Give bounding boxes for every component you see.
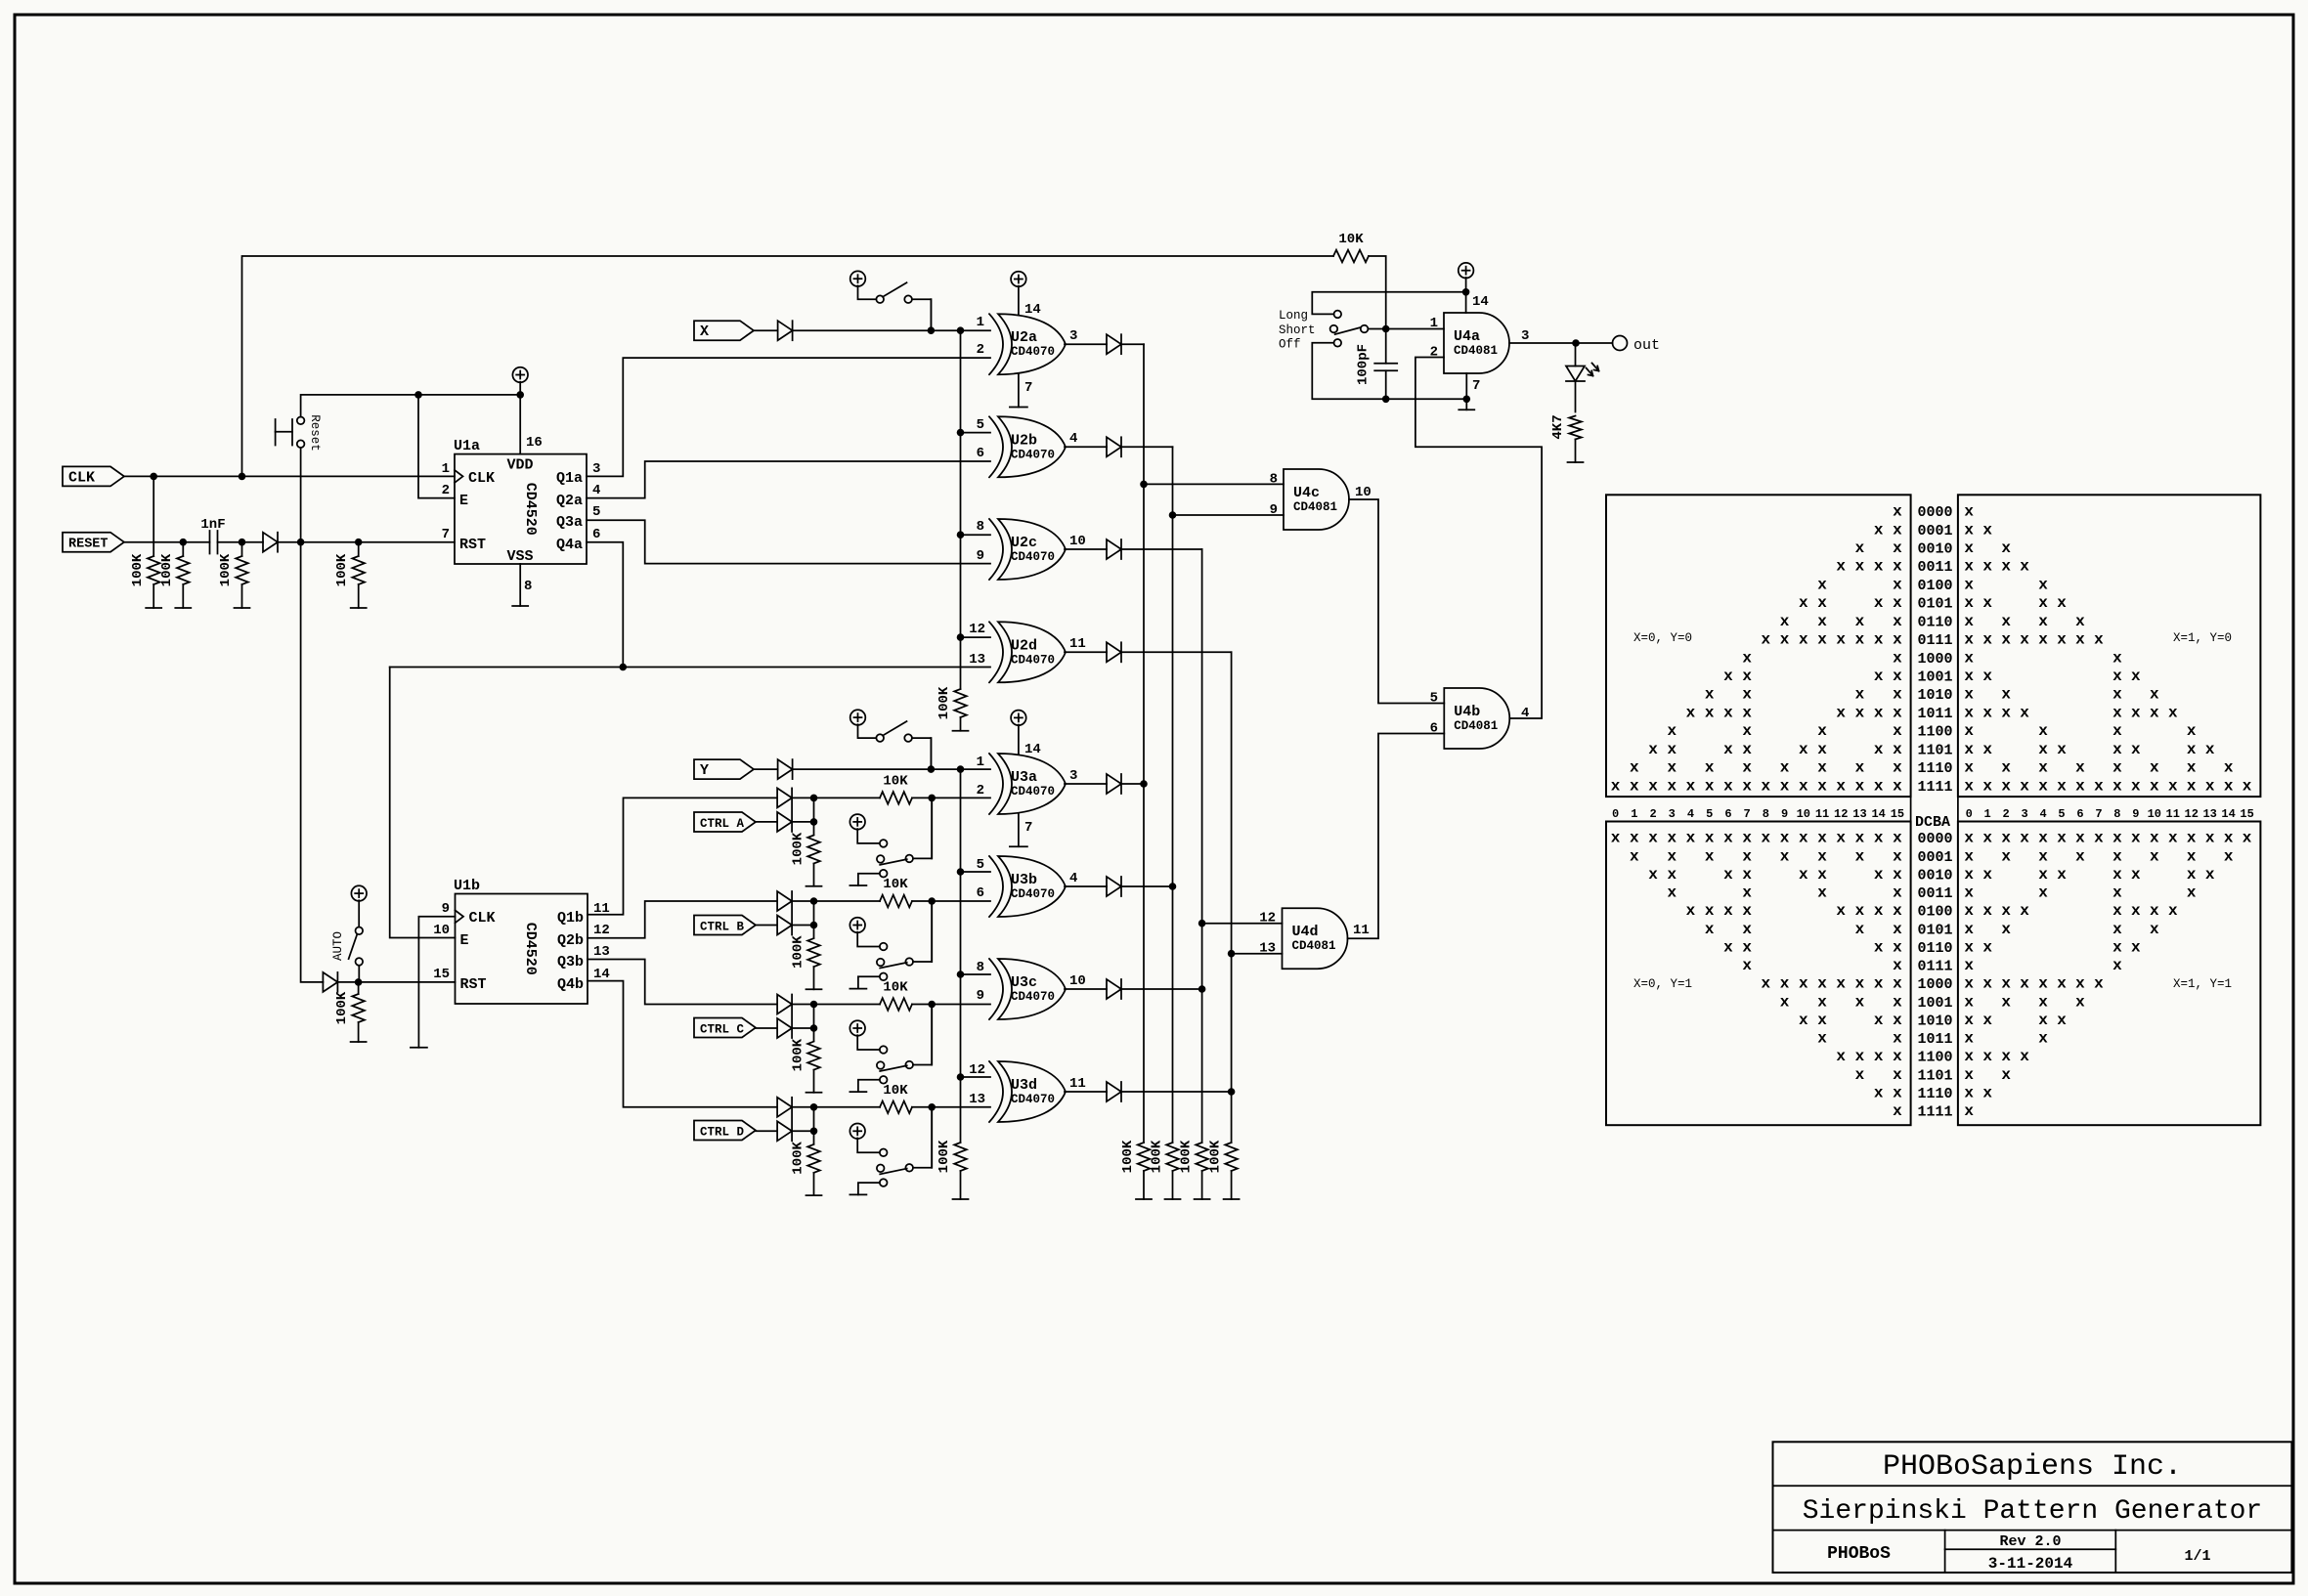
- svg-text:x: x: [2224, 759, 2234, 777]
- svg-text:x: x: [1982, 1012, 1992, 1029]
- svg-text:x: x: [2205, 830, 2215, 847]
- xor gate U2d CD4070: [989, 622, 1003, 682]
- svg-text:x: x: [2075, 847, 2085, 865]
- svg-text:x: x: [1780, 847, 1790, 865]
- svg-text:1nF: 1nF: [200, 517, 225, 533]
- svg-text:x: x: [1742, 686, 1752, 704]
- svg-text:x: x: [2075, 631, 2085, 649]
- diode D U1b RST: [323, 972, 337, 992]
- svg-text:x: x: [2150, 777, 2159, 795]
- svg-text:x: x: [1982, 521, 1992, 539]
- svg-text:x: x: [1817, 884, 1827, 902]
- svg-text:100K: 100K: [334, 553, 350, 586]
- node pattern grid box X=0 Y=1: [1606, 822, 1911, 1126]
- power +V U4a pin 14: [1459, 263, 1489, 313]
- svg-text:x: x: [1742, 668, 1752, 685]
- svg-text:x: x: [1817, 631, 1827, 649]
- svg-text:100K: 100K: [130, 553, 146, 586]
- input connector CTRL B: [694, 916, 756, 935]
- resistor R RST pullup-down 100K: [334, 542, 365, 608]
- svg-text:U2d: U2d: [1011, 637, 1037, 654]
- ground U3-bus pulldown: [953, 1198, 969, 1200]
- wire Q2a to U2b pin 6: [587, 461, 990, 498]
- svg-text:1101: 1101: [1918, 1067, 1953, 1084]
- svg-text:x: x: [1874, 866, 1884, 884]
- svg-text:x: x: [1964, 830, 1974, 847]
- svg-text:x: x: [1705, 847, 1715, 865]
- svg-text:x: x: [1982, 1084, 1992, 1101]
- svg-text:10: 10: [1069, 534, 1086, 549]
- svg-text:x: x: [1667, 884, 1677, 902]
- svg-text:CTRL D: CTRL D: [700, 1126, 745, 1140]
- svg-text:x: x: [1742, 866, 1752, 884]
- svg-text:x: x: [2038, 594, 2048, 612]
- ground bus pulldown x1259: [1224, 1198, 1240, 1200]
- wire Y switch drop: [930, 738, 932, 769]
- svg-text:x: x: [1855, 830, 1865, 847]
- svg-text:x: x: [2038, 576, 2048, 593]
- svg-text:x: x: [1893, 558, 1902, 576]
- svg-text:x: x: [1893, 539, 1902, 557]
- svg-text:8: 8: [977, 519, 984, 535]
- svg-text:Sierpinski Pattern Generator: Sierpinski Pattern Generator: [1803, 1496, 2262, 1527]
- svg-text:1010: 1010: [1918, 687, 1953, 704]
- svg-text:CD4520: CD4520: [522, 923, 539, 975]
- svg-text:x: x: [1705, 759, 1715, 777]
- svg-text:U2b: U2b: [1011, 432, 1037, 449]
- diode D out U3 y802: [1065, 774, 1144, 794]
- svg-text:x: x: [1780, 830, 1790, 847]
- resistor R timing 10K: [1333, 232, 1386, 364]
- svg-text:x: x: [2112, 722, 2122, 740]
- svg-text:x: x: [2168, 777, 2178, 795]
- xor gate U3a CD4070: [989, 754, 1003, 814]
- svg-text:6: 6: [1430, 721, 1438, 737]
- svg-text:x: x: [1855, 902, 1865, 920]
- svg-text:0001: 0001: [1918, 523, 1953, 539]
- svg-text:x: x: [2038, 847, 2048, 865]
- capacitor C2 100pF: [1356, 344, 1398, 399]
- svg-text:x: x: [2150, 830, 2159, 847]
- svg-text:U3b: U3b: [1011, 872, 1037, 888]
- svg-text:x: x: [2205, 777, 2215, 795]
- svg-text:x: x: [2075, 975, 2085, 993]
- svg-text:4: 4: [1687, 807, 1694, 821]
- svg-text:6: 6: [2076, 807, 2083, 821]
- svg-text:x: x: [2112, 668, 2122, 685]
- svg-text:5: 5: [1706, 807, 1713, 821]
- svg-text:x: x: [1893, 503, 1902, 521]
- svg-text:x: x: [2020, 1048, 2029, 1065]
- pushbutton Reset: [276, 414, 322, 452]
- svg-text:x: x: [2020, 777, 2029, 795]
- svg-text:x: x: [1874, 668, 1884, 685]
- svg-text:x: x: [1667, 866, 1677, 884]
- svg-text:x: x: [2001, 686, 2011, 704]
- svg-text:x: x: [1982, 777, 1992, 795]
- svg-text:100K: 100K: [791, 832, 806, 865]
- resistor R bus pulldown 100K x1229: [1179, 1140, 1208, 1199]
- svg-text:x: x: [1964, 686, 1974, 704]
- svg-text:x: x: [1964, 921, 1974, 938]
- svg-text:3: 3: [1521, 328, 1529, 344]
- svg-text:U4a: U4a: [1454, 328, 1480, 345]
- svg-text:x: x: [1982, 558, 1992, 576]
- svg-text:x: x: [2038, 975, 2048, 993]
- svg-text:1111: 1111: [1918, 1104, 1953, 1121]
- svg-text:6: 6: [977, 885, 984, 901]
- ground ctrl C: [806, 1092, 822, 1094]
- and gate U4d CD4081: [1283, 908, 1348, 969]
- input connector CTRL C: [694, 1018, 756, 1038]
- svg-text:Q3b: Q3b: [557, 954, 584, 971]
- svg-text:x: x: [2112, 884, 2122, 902]
- svg-text:x: x: [1964, 649, 1974, 667]
- svg-text:x: x: [1982, 594, 1992, 612]
- svg-text:U1b: U1b: [454, 878, 480, 894]
- svg-text:100K: 100K: [791, 1038, 806, 1071]
- svg-text:x: x: [1964, 1066, 1974, 1084]
- svg-text:x: x: [1855, 539, 1865, 557]
- svg-text:x: x: [1780, 759, 1790, 777]
- title block: [1773, 1442, 2292, 1573]
- svg-text:x: x: [1723, 866, 1733, 884]
- svg-text:x: x: [1964, 957, 1974, 974]
- node pattern grid box X=1 Y=0: [1958, 495, 2260, 797]
- svg-text:12: 12: [2185, 807, 2199, 821]
- svg-text:x: x: [1667, 741, 1677, 758]
- ground bus pulldown x1229: [1195, 1198, 1210, 1200]
- ground U4a pin 7: [1459, 373, 1480, 410]
- svg-text:x: x: [2057, 631, 2067, 649]
- svg-text:7: 7: [1744, 807, 1751, 821]
- svg-text:X=1, Y=1: X=1, Y=1: [2173, 977, 2232, 991]
- svg-text:5: 5: [1430, 691, 1438, 707]
- svg-text:x: x: [1982, 741, 1992, 758]
- svg-text:x: x: [1817, 613, 1827, 630]
- wire QC to ctrl row: [588, 960, 777, 1005]
- svg-text:x: x: [2131, 902, 2141, 920]
- svg-text:x: x: [2038, 866, 2048, 884]
- svg-text:x: x: [2020, 975, 2029, 993]
- svg-text:x: x: [1893, 938, 1902, 956]
- svg-text:x: x: [1799, 975, 1808, 993]
- svg-text:7: 7: [442, 527, 450, 542]
- diode D X input: [778, 321, 793, 340]
- svg-text:1010: 1010: [1918, 1013, 1953, 1029]
- diode D out y562: [1065, 539, 1202, 559]
- svg-text:x: x: [1686, 777, 1696, 795]
- svg-text:1110: 1110: [1918, 760, 1953, 777]
- svg-text:x: x: [1799, 631, 1808, 649]
- svg-text:x: x: [2187, 884, 2197, 902]
- svg-text:x: x: [2001, 631, 2011, 649]
- svg-text:x: x: [1964, 1102, 1974, 1120]
- wire RESET net: [124, 539, 455, 546]
- svg-text:x: x: [2224, 847, 2234, 865]
- svg-text:RST: RST: [459, 537, 486, 553]
- svg-text:x: x: [1982, 668, 1992, 685]
- svg-text:Q2a: Q2a: [556, 493, 583, 509]
- resistor R ctrl B 100K: [791, 935, 820, 990]
- svg-text:x: x: [1964, 1084, 1974, 1101]
- svg-text:x: x: [2094, 975, 2104, 993]
- wire U4c pin 9: [1173, 514, 1285, 516]
- wire U4c pin 8: [1144, 483, 1284, 485]
- svg-text:x: x: [2075, 993, 2085, 1011]
- svg-text:x: x: [1893, 576, 1902, 593]
- svg-text:Reset: Reset: [308, 414, 322, 452]
- svg-text:x: x: [1630, 759, 1639, 777]
- svg-text:E: E: [459, 493, 468, 509]
- svg-text:x: x: [2112, 649, 2122, 667]
- svg-text:0110: 0110: [1918, 940, 1953, 957]
- svg-text:x: x: [1964, 594, 1974, 612]
- svg-text:x: x: [2150, 686, 2159, 704]
- switch S Long/Short/Off: [1279, 309, 1368, 351]
- svg-text:x: x: [2075, 613, 2085, 630]
- svg-text:x: x: [1630, 847, 1639, 865]
- svg-text:x: x: [1964, 866, 1974, 884]
- resistor R ctrl C 10K: [814, 980, 991, 1011]
- svg-text:x: x: [2057, 866, 2067, 884]
- svg-text:x: x: [1855, 759, 1865, 777]
- switch S ctrl C: [849, 1005, 932, 1093]
- diode D ctrl C lower: [777, 995, 792, 1039]
- svg-text:x: x: [2112, 921, 2122, 938]
- svg-text:Q1b: Q1b: [557, 910, 584, 927]
- svg-text:x: x: [1855, 1066, 1865, 1084]
- wire U2 input bus: [957, 330, 990, 689]
- wire Q3a to U2c pin 9: [587, 520, 990, 563]
- svg-text:x: x: [1817, 975, 1827, 993]
- svg-text:x: x: [1705, 777, 1715, 795]
- svg-text:x: x: [2112, 938, 2122, 956]
- resistor R bus pulldown 100K x1199: [1150, 1140, 1179, 1199]
- svg-text:Rev 2.0: Rev 2.0: [1999, 1533, 2061, 1550]
- svg-text:2: 2: [977, 783, 984, 798]
- svg-text:x: x: [1964, 993, 1974, 1011]
- svg-text:x: x: [1742, 957, 1752, 974]
- switch S X enable: [850, 271, 866, 286]
- svg-text:x: x: [1893, 830, 1902, 847]
- svg-text:x: x: [1836, 1048, 1846, 1065]
- resistor R U3-bus pulldown 100K: [936, 1140, 967, 1199]
- svg-text:PHOBoS: PHOBoS: [1827, 1544, 1891, 1564]
- svg-text:x: x: [1723, 902, 1733, 920]
- svg-text:U3c: U3c: [1011, 974, 1037, 991]
- svg-text:x: x: [2243, 777, 2252, 795]
- svg-text:3: 3: [1069, 328, 1077, 344]
- svg-text:0110: 0110: [1918, 614, 1953, 630]
- ground ctrl B: [806, 988, 822, 990]
- svg-text:10K: 10K: [883, 773, 908, 789]
- svg-text:x: x: [1799, 594, 1808, 612]
- wire QB to ctrl row: [588, 901, 777, 938]
- svg-text:x: x: [2001, 777, 2011, 795]
- svg-text:7: 7: [1024, 820, 1032, 836]
- svg-text:x: x: [1964, 704, 1974, 721]
- svg-text:1001: 1001: [1918, 995, 1953, 1012]
- xor gate U3d CD4070: [989, 1061, 1003, 1122]
- svg-text:Q4b: Q4b: [557, 976, 584, 993]
- svg-text:x: x: [2131, 777, 2141, 795]
- svg-text:DCBA: DCBA: [1915, 814, 1950, 831]
- svg-text:x: x: [1836, 631, 1846, 649]
- svg-text:x: x: [1723, 830, 1733, 847]
- svg-text:1: 1: [1984, 807, 1991, 821]
- svg-text:x: x: [2001, 704, 2011, 721]
- svg-text:x: x: [2187, 777, 2197, 795]
- wire ctrl C cathodes: [756, 1001, 817, 1041]
- svg-text:x: x: [1817, 594, 1827, 612]
- svg-text:15: 15: [2240, 807, 2253, 821]
- svg-text:x: x: [1705, 830, 1715, 847]
- svg-text:x: x: [2001, 830, 2011, 847]
- diode D ctrl D upper: [777, 1098, 792, 1117]
- svg-text:RESET: RESET: [68, 538, 109, 552]
- svg-text:1001: 1001: [1918, 669, 1953, 686]
- wire U4b out to U4a pin 2: [1415, 358, 1542, 719]
- svg-text:x: x: [2243, 830, 2252, 847]
- svg-text:x: x: [1982, 631, 1992, 649]
- svg-text:12: 12: [969, 622, 985, 637]
- svg-text:x: x: [1982, 975, 1992, 993]
- diode D out U3 y1012: [1065, 979, 1202, 999]
- svg-text:x: x: [1817, 1030, 1827, 1048]
- wire Off to ground rail: [1312, 343, 1470, 403]
- svg-text:4: 4: [1069, 871, 1077, 886]
- svg-text:10K: 10K: [883, 877, 908, 892]
- svg-text:7: 7: [2095, 807, 2102, 821]
- svg-text:x: x: [2038, 830, 2048, 847]
- diode D out y667: [1065, 642, 1232, 662]
- svg-text:9: 9: [2132, 807, 2139, 821]
- svg-text:1: 1: [1430, 316, 1438, 331]
- svg-text:x: x: [1705, 704, 1715, 721]
- svg-text:3-11-2014: 3-11-2014: [1988, 1555, 2073, 1573]
- svg-text:10K: 10K: [883, 980, 908, 996]
- svg-text:x: x: [1964, 503, 1974, 521]
- svg-text:VDD: VDD: [506, 457, 533, 474]
- wire CLK net: [124, 256, 1333, 480]
- svg-text:100K: 100K: [1150, 1140, 1165, 1173]
- svg-text:Q4a: Q4a: [556, 537, 583, 553]
- svg-text:x: x: [1893, 975, 1902, 993]
- diode D out U3 y1117: [1065, 1082, 1232, 1101]
- svg-text:x: x: [1874, 1012, 1884, 1029]
- svg-text:x: x: [1780, 631, 1790, 649]
- svg-text:x: x: [1964, 521, 1974, 539]
- svg-text:x: x: [2038, 777, 2048, 795]
- svg-text:x: x: [2112, 777, 2122, 795]
- svg-text:1111: 1111: [1918, 779, 1953, 796]
- resistor R U2-bus pulldown 100K: [936, 686, 967, 731]
- svg-text:x: x: [2001, 847, 2011, 865]
- svg-text:2: 2: [442, 483, 450, 498]
- diode D out y457: [1065, 437, 1173, 456]
- svg-text:1101: 1101: [1918, 742, 1953, 758]
- svg-text:x: x: [1874, 741, 1884, 758]
- resistor R ctrl A 100K: [791, 832, 820, 886]
- resistor R ctrl A 10K: [814, 773, 991, 803]
- svg-text:X=0, Y=1: X=0, Y=1: [1633, 977, 1692, 991]
- svg-text:x: x: [1723, 741, 1733, 758]
- svg-text:VSS: VSS: [506, 548, 533, 565]
- wire U1a E pin to rail: [418, 395, 455, 498]
- svg-text:x: x: [2150, 847, 2159, 865]
- svg-text:x: x: [1893, 668, 1902, 685]
- svg-text:RST: RST: [460, 976, 487, 993]
- svg-text:CD4081: CD4081: [1292, 939, 1336, 953]
- svg-text:x: x: [1836, 830, 1846, 847]
- ground U3a pin 7: [1010, 813, 1033, 846]
- power +V U2a pin 14: [1011, 272, 1041, 318]
- resistor R ctrl C 100K: [791, 1038, 820, 1093]
- svg-text:x: x: [2001, 902, 2011, 920]
- resistor R ctrl D 100K: [791, 1142, 820, 1196]
- switch S Y enable: [850, 710, 866, 725]
- svg-text:x: x: [1982, 902, 1992, 920]
- xor gate U2c CD4070: [989, 519, 1003, 580]
- svg-text:x: x: [2187, 866, 2197, 884]
- counter U1a CD4520: [442, 435, 601, 594]
- svg-text:8: 8: [977, 960, 984, 975]
- svg-text:13: 13: [969, 1092, 985, 1107]
- svg-text:100K: 100K: [1208, 1140, 1224, 1173]
- svg-text:x: x: [2001, 759, 2011, 777]
- svg-text:x: x: [1964, 777, 1974, 795]
- svg-text:x: x: [1742, 938, 1752, 956]
- svg-text:x: x: [1611, 830, 1621, 847]
- svg-text:x: x: [1630, 777, 1639, 795]
- svg-text:1011: 1011: [1918, 1031, 1953, 1048]
- xor gate U2b CD4070: [989, 416, 1003, 477]
- svg-text:x: x: [1799, 1012, 1808, 1029]
- svg-text:6: 6: [977, 446, 984, 461]
- input connector CTRL D: [694, 1121, 756, 1141]
- svg-text:x: x: [2094, 777, 2104, 795]
- diode D ctrl A lower: [777, 788, 792, 832]
- svg-text:x: x: [2112, 686, 2122, 704]
- ground after-cap pulldown: [235, 607, 250, 609]
- svg-text:0111: 0111: [1918, 632, 1953, 649]
- and gate U4b CD4081: [1444, 688, 1509, 749]
- svg-text:x: x: [1893, 759, 1902, 777]
- svg-text:x: x: [1874, 1084, 1884, 1101]
- svg-text:PHOBoSapiens Inc.: PHOBoSapiens Inc.: [1883, 1450, 2182, 1484]
- svg-text:x: x: [1667, 830, 1677, 847]
- svg-text:x: x: [1780, 993, 1790, 1011]
- power +V U3a pin 14: [1011, 711, 1041, 757]
- node pattern marks X=1 Y=0: [1964, 503, 2251, 796]
- svg-text:15: 15: [1891, 807, 1904, 821]
- svg-text:1: 1: [977, 315, 984, 330]
- svg-text:x: x: [1982, 938, 1992, 956]
- svg-text:9: 9: [1781, 807, 1788, 821]
- svg-text:x: x: [2224, 777, 2234, 795]
- svg-text:x: x: [1964, 631, 1974, 649]
- resistor R ctrl B 10K: [814, 877, 991, 907]
- svg-text:x: x: [1893, 957, 1902, 974]
- LED D1: [1566, 343, 1599, 381]
- svg-text:4K7: 4K7: [1550, 414, 1566, 439]
- svg-text:CD4520: CD4520: [522, 483, 539, 536]
- svg-text:x: x: [2112, 866, 2122, 884]
- wire output bus 3 (U2c/U3c): [1198, 549, 1206, 1143]
- svg-text:x: x: [2038, 884, 2048, 902]
- svg-text:100K: 100K: [218, 553, 234, 586]
